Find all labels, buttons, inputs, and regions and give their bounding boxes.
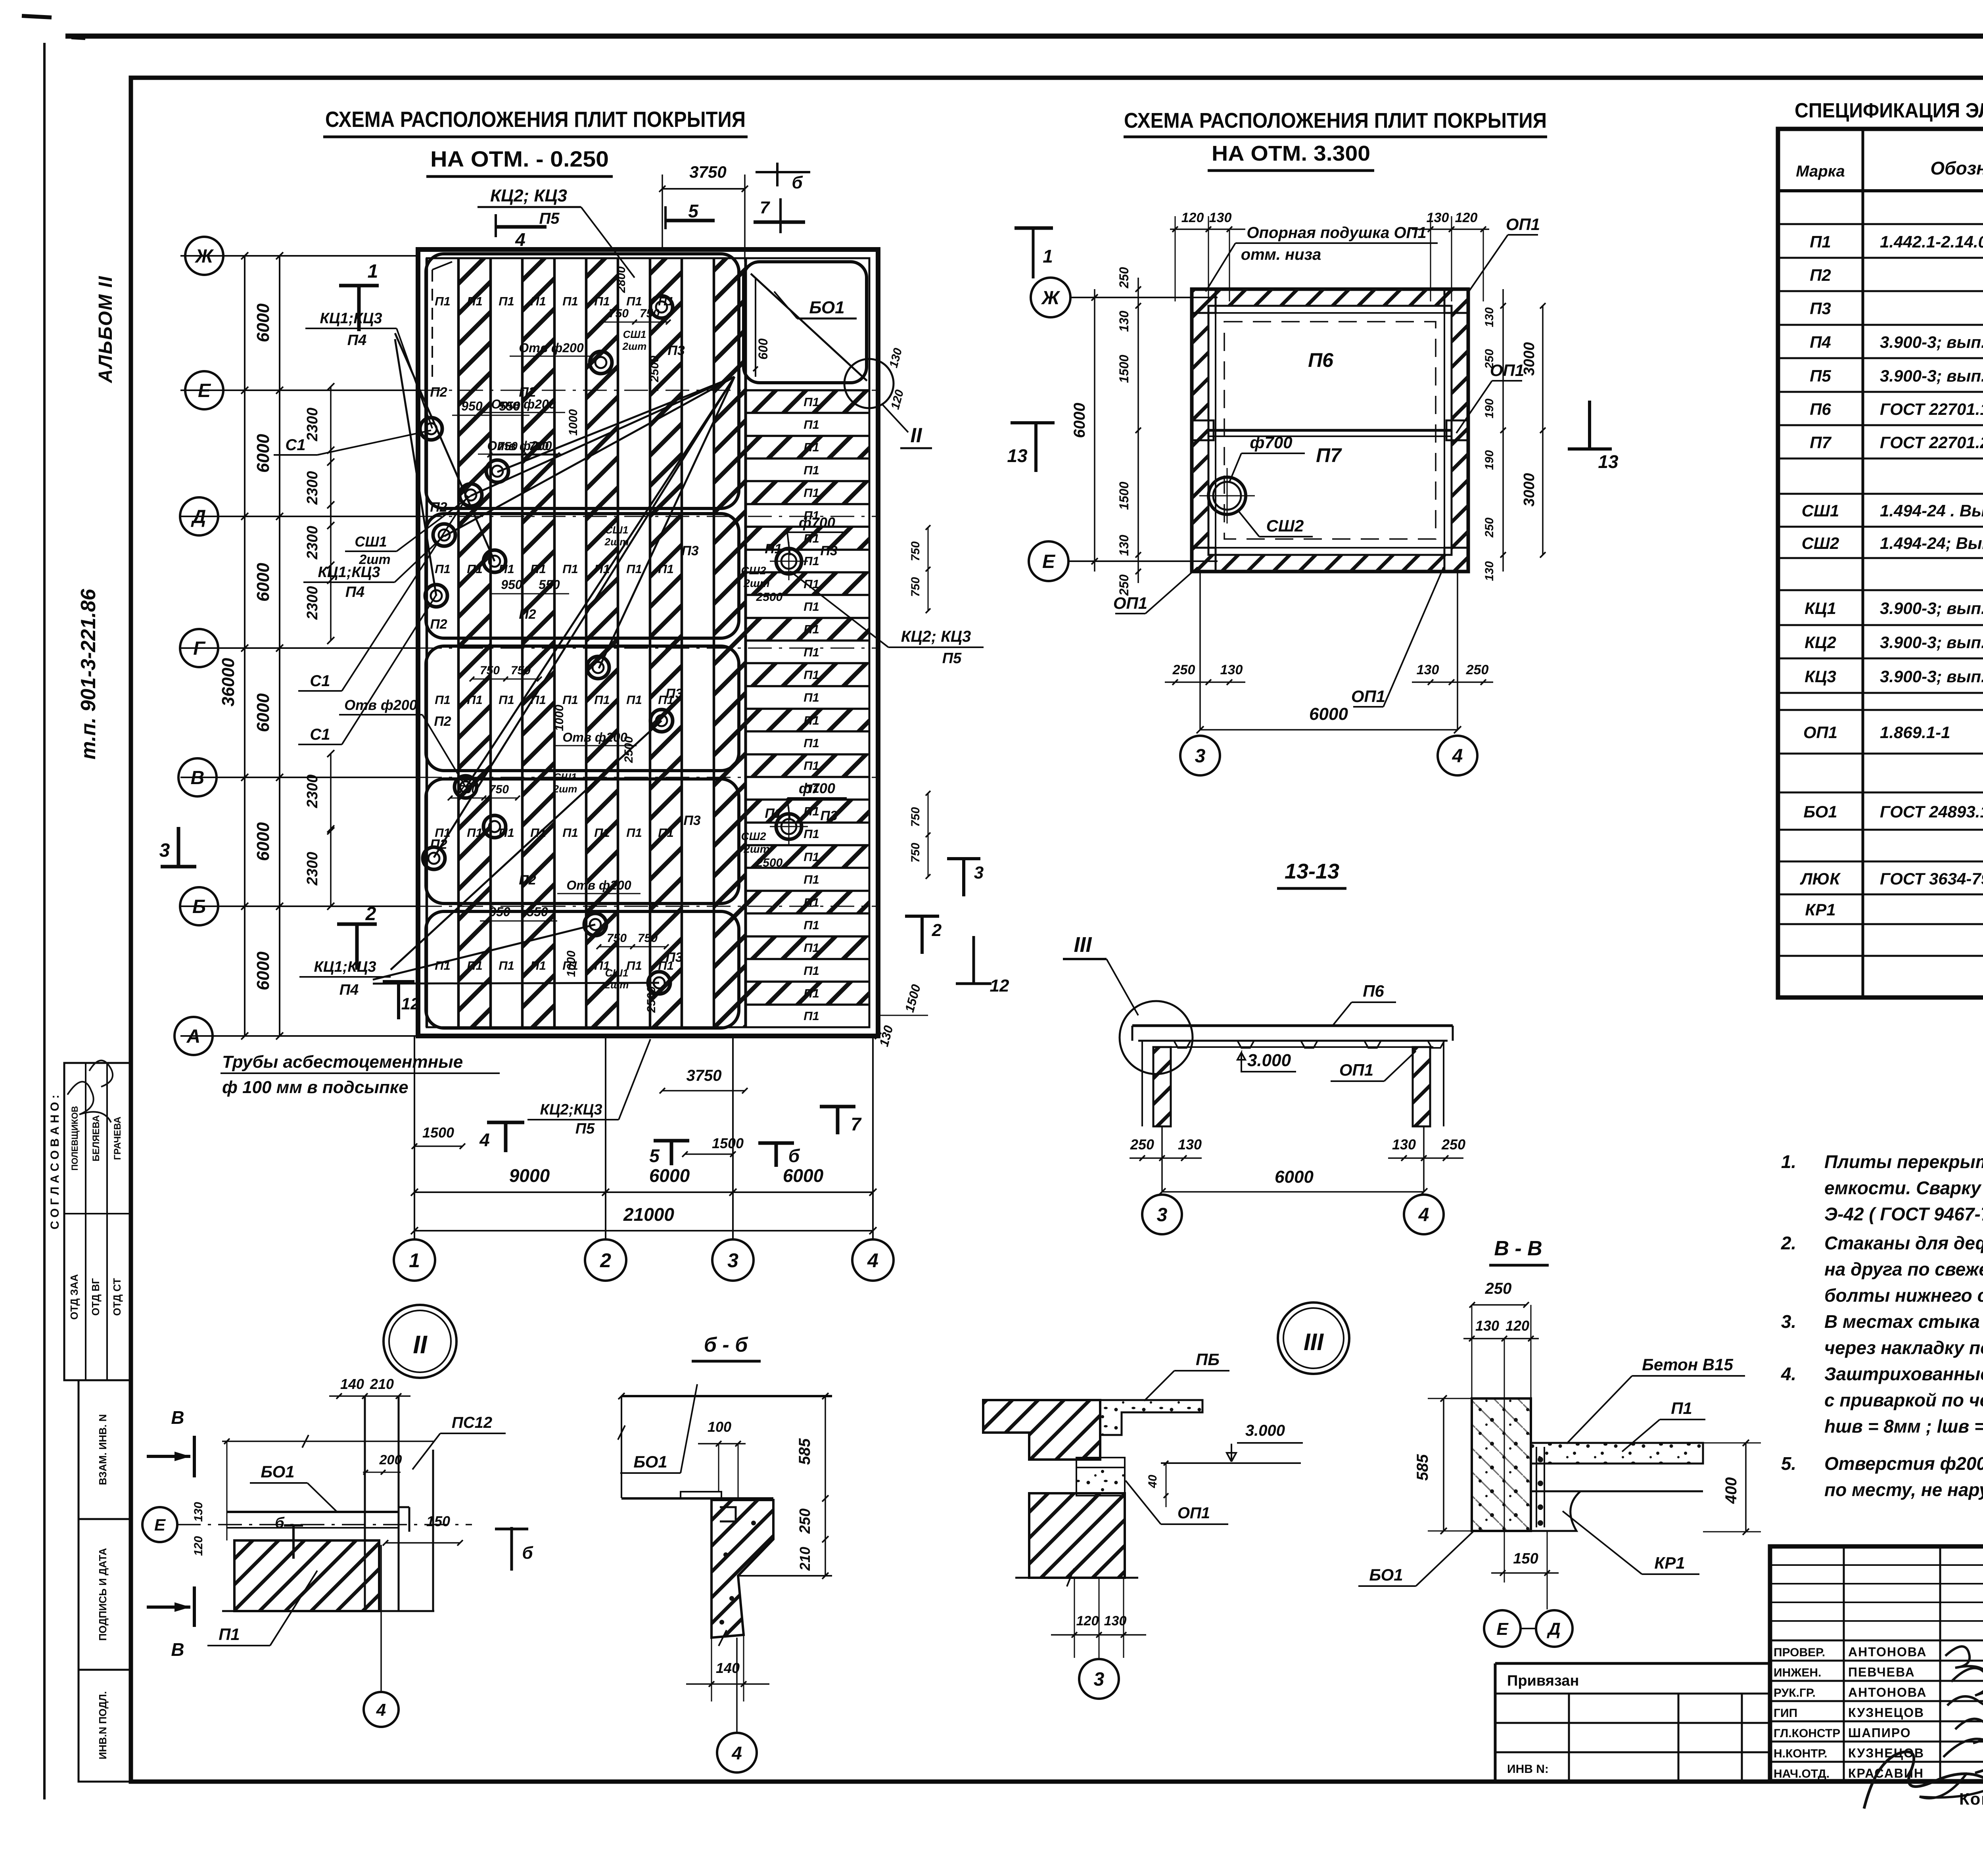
title block: signature grid top xyxy=(1770,1564,1983,1566)
svg-text:130: 130 xyxy=(1475,1318,1499,1334)
svg-text:1: 1 xyxy=(409,1249,420,1272)
svg-text:2500: 2500 xyxy=(756,591,783,604)
svg-text:9000: 9000 xyxy=(509,1165,550,1186)
weld hook at beam top xyxy=(720,1507,736,1521)
svg-text:НА ОТМ. - 0.250: НА ОТМ. - 0.250 xyxy=(430,146,609,171)
svg-text:Отв ф200: Отв ф200 xyxy=(519,341,583,355)
bottom flags xyxy=(487,1121,524,1124)
axis circle А xyxy=(175,1017,213,1055)
svg-text:130: 130 xyxy=(1220,662,1243,677)
svg-text:КЦ2; КЦ3: КЦ2; КЦ3 xyxy=(901,628,971,645)
ledge line xyxy=(738,1575,832,1577)
scheme2 walls xyxy=(1192,289,1468,572)
svg-text:950: 950 xyxy=(501,577,522,592)
svg-text:550: 550 xyxy=(539,577,560,592)
svg-text:П1: П1 xyxy=(626,826,642,840)
title block: signature rows xyxy=(1770,1640,1983,1642)
svg-text:ф700: ф700 xyxy=(799,780,835,796)
svg-text:П4: П4 xyxy=(339,982,359,998)
svg-text:ОП1: ОП1 xyxy=(1113,594,1147,612)
sheet top thick border xyxy=(65,34,1983,39)
svg-text:П1: П1 xyxy=(626,693,642,707)
svg-text:КЦ1;КЦ3: КЦ1;КЦ3 xyxy=(320,310,382,327)
svg-text:СШ2: СШ2 xyxy=(1266,516,1304,535)
svg-text:по месту, не нарушая ребер.: по месту, не нарушая ребер. xyxy=(1824,1479,1983,1500)
svg-text:6000: 6000 xyxy=(253,693,273,732)
stakan ring symbols xyxy=(650,296,673,318)
svg-text:Э-42 ( ГОСТ 9467-75 ).: Э-42 ( ГОСТ 9467-75 ). xyxy=(1824,1204,1983,1224)
svg-text:т.п. 901-3-221.86: т.п. 901-3-221.86 xyxy=(77,589,100,760)
node II leader and label xyxy=(882,405,908,432)
svg-text:Обозначение: Обозначение xyxy=(1930,158,1983,178)
scheme2 section 13 flags xyxy=(1011,421,1055,424)
svg-text:6000: 6000 xyxy=(253,822,273,861)
svg-text:4: 4 xyxy=(479,1130,490,1150)
svg-text:АНТОНОВА: АНТОНОВА xyxy=(1848,1685,1927,1700)
svg-text:КЦ1;КЦ3: КЦ1;КЦ3 xyxy=(314,959,376,975)
svg-text:ГОСТ 3634-79: ГОСТ 3634-79 xyxy=(1880,869,1983,888)
svg-text:ИНВ N:: ИНВ N: xyxy=(1507,1763,1549,1776)
svg-text:П1: П1 xyxy=(804,941,819,955)
svg-text:ОП1: ОП1 xyxy=(1339,1061,1373,1079)
right bay top corner block xyxy=(744,262,867,383)
svg-text:130: 130 xyxy=(1417,662,1439,677)
svg-text:П1: П1 xyxy=(594,294,610,308)
svg-text:КУЗНЕЦОВ: КУЗНЕЦОВ xyxy=(1848,1705,1924,1720)
svg-text:4: 4 xyxy=(376,1700,386,1720)
svg-text:П1: П1 xyxy=(804,986,819,1000)
svg-text:5: 5 xyxy=(688,201,699,221)
б-б wall above: top line xyxy=(621,1395,832,1397)
svg-text:П5: П5 xyxy=(539,210,560,227)
bottom dim line 1 xyxy=(414,1191,873,1193)
svg-text:Марка: Марка xyxy=(1796,163,1845,180)
svg-text:21000: 21000 xyxy=(623,1204,674,1225)
svg-text:СШ1: СШ1 xyxy=(355,533,387,550)
svg-text:III: III xyxy=(1074,933,1092,957)
flag 1 top xyxy=(339,284,379,288)
svg-text:1500: 1500 xyxy=(712,1135,744,1151)
svg-text:Отв ф200: Отв ф200 xyxy=(344,697,417,713)
big signature flourish xyxy=(1864,1752,1983,1809)
svg-text:СШ2: СШ2 xyxy=(1802,534,1839,552)
svg-text:В - В: В - В xyxy=(1494,1237,1542,1260)
svg-text:КЦ1: КЦ1 xyxy=(1805,599,1836,618)
svg-text:б: б xyxy=(792,173,803,192)
svg-text:В местах стыка панелей плиты п: В местах стыка панелей плиты покрытия пр… xyxy=(1824,1311,1983,1332)
б flag right xyxy=(510,1527,513,1571)
svg-text:1: 1 xyxy=(368,261,378,282)
svg-text:Опорная подушка ОП1: Опорная подушка ОП1 xyxy=(1247,224,1426,242)
bottom axis verticals xyxy=(414,1036,415,1239)
svg-text:Б: Б xyxy=(192,896,206,917)
svg-text:3.: 3. xyxy=(1781,1311,1796,1332)
svg-text:П1: П1 xyxy=(804,850,819,864)
svg-text:ЛЮК: ЛЮК xyxy=(1800,869,1841,888)
svg-text:РУК.ГР.: РУК.ГР. xyxy=(1774,1686,1816,1700)
svg-text:П3: П3 xyxy=(683,813,700,828)
right support 13-13 xyxy=(1413,1047,1430,1126)
left margin: inv n podl box xyxy=(79,1670,131,1782)
svg-text:б - б: б - б xyxy=(704,1333,748,1356)
title block signatures squiggles xyxy=(1943,1646,1983,1773)
б-б left dim line with break xyxy=(621,1396,622,1498)
svg-text:2300: 2300 xyxy=(304,526,321,560)
svg-text:П3: П3 xyxy=(820,543,837,558)
svg-text:550: 550 xyxy=(527,905,548,919)
svg-text:585: 585 xyxy=(796,1438,813,1465)
svg-text:1.869.1-1: 1.869.1-1 xyxy=(1880,723,1950,742)
svg-text:П1: П1 xyxy=(467,294,483,308)
svg-text:6000: 6000 xyxy=(649,1165,690,1186)
svg-text:Копировал: Коршунова: Копировал: Коршунова xyxy=(1959,1790,1983,1808)
svg-text:П1: П1 xyxy=(626,959,642,973)
svg-text:ПБ: ПБ xyxy=(1196,1350,1220,1369)
svg-text:2: 2 xyxy=(365,903,376,925)
svg-text:П2: П2 xyxy=(519,607,536,622)
svg-text:120: 120 xyxy=(1455,210,1478,225)
svg-text:ОТД ВГ: ОТД ВГ xyxy=(90,1278,102,1316)
svg-text:130: 130 xyxy=(1483,561,1496,581)
svg-text:750: 750 xyxy=(458,783,478,796)
svg-text:750: 750 xyxy=(909,577,922,597)
svg-text:П1: П1 xyxy=(804,896,819,909)
svg-text:585: 585 xyxy=(1414,1454,1431,1481)
plan axis horizontal lines xyxy=(180,255,418,257)
svg-text:1.442.1-2.14.000-048: 1.442.1-2.14.000-048 xyxy=(1880,232,1983,251)
svg-text:б: б xyxy=(788,1145,800,1166)
svg-text:П1: П1 xyxy=(435,294,451,308)
585 dim б-б xyxy=(825,1396,826,1576)
svg-text:ВЗАМ. ИНВ. N: ВЗАМ. ИНВ. N xyxy=(97,1414,109,1485)
svg-text:СШ1: СШ1 xyxy=(554,771,577,783)
ПС12 vertical element xyxy=(432,1450,434,1611)
svg-text:1500: 1500 xyxy=(422,1124,454,1141)
svg-text:П1: П1 xyxy=(804,964,819,978)
spec table row lines xyxy=(1778,223,1983,225)
svg-text:ИНВ.N ПОДЛ.: ИНВ.N ПОДЛ. xyxy=(97,1691,109,1759)
svg-text:2300: 2300 xyxy=(304,586,321,620)
slab ribs xyxy=(1174,1041,1191,1048)
svg-text:КЦ3: КЦ3 xyxy=(1805,667,1836,686)
svg-text:П1: П1 xyxy=(562,826,578,840)
svg-text:КЦ2;КЦ3: КЦ2;КЦ3 xyxy=(540,1101,602,1118)
scheme2 bottom dims xyxy=(1199,572,1201,730)
svg-text:6000: 6000 xyxy=(1309,704,1348,724)
svg-text:П1: П1 xyxy=(804,668,819,682)
right bay horizontal slab strips xyxy=(746,390,869,413)
svg-text:П1: П1 xyxy=(626,294,642,308)
svg-text:13-13: 13-13 xyxy=(1285,859,1339,883)
svg-text:4: 4 xyxy=(867,1249,878,1272)
svg-text:П1: П1 xyxy=(804,691,819,704)
spec table column lines xyxy=(1862,129,1864,997)
title block outer xyxy=(1770,1546,1983,1781)
13-13 bottom dims xyxy=(1161,1126,1163,1192)
svg-text:Д: Д xyxy=(191,506,206,528)
flag 2 right xyxy=(905,915,939,918)
svg-text:5.: 5. xyxy=(1781,1453,1796,1474)
svg-text:П1: П1 xyxy=(804,714,819,727)
svg-text:36000: 36000 xyxy=(219,658,238,706)
axis circle Д xyxy=(180,497,218,535)
svg-text:П2: П2 xyxy=(430,385,447,400)
svg-text:6000: 6000 xyxy=(253,951,273,990)
slab group rounded blocks xyxy=(426,254,739,508)
node III bottom dims xyxy=(1074,1578,1075,1658)
svg-text:II: II xyxy=(413,1330,428,1359)
В-В slab П1 xyxy=(1531,1443,1703,1464)
svg-text:750: 750 xyxy=(609,307,629,320)
bottom dim line 2 total xyxy=(414,1230,873,1231)
privyazan grid xyxy=(1495,1722,1770,1724)
svg-text:В: В xyxy=(171,1639,184,1660)
left margin: vzam inv box xyxy=(79,1380,131,1519)
svg-text:120: 120 xyxy=(1505,1318,1529,1334)
svg-text:3: 3 xyxy=(1195,746,1206,767)
svg-text:Трубы асбестоцементные: Трубы асбестоцементные xyxy=(222,1052,463,1072)
svg-text:1.494-24 . Вып.1: 1.494-24 . Вып.1 xyxy=(1880,501,1983,520)
vertical slab strips xyxy=(426,258,428,1027)
svg-text:СШ1: СШ1 xyxy=(605,524,629,536)
svg-text:В: В xyxy=(191,767,205,788)
svg-text:П3: П3 xyxy=(665,686,683,701)
svg-text:Бетон В15: Бетон В15 xyxy=(1642,1355,1733,1374)
svg-text:ф 100 мм в подсыпке: ф 100 мм в подсыпке xyxy=(222,1078,408,1097)
svg-text:130: 130 xyxy=(1427,210,1449,225)
130 1500 marks bottom right of plan xyxy=(875,1033,881,1039)
svg-text:СПЕЦИФИКАЦИЯ ЭЛЕМЕНТОВ К СХЕМА: СПЕЦИФИКАЦИЯ ЭЛЕМЕНТОВ К СХЕМАМ РАСПОЛОЖ… xyxy=(1795,99,1983,122)
svg-text:750: 750 xyxy=(511,664,531,677)
svg-text:3.000: 3.000 xyxy=(1245,1422,1285,1439)
svg-text:ПС12: ПС12 xyxy=(452,1414,492,1431)
svg-text:2шт: 2шт xyxy=(604,979,629,991)
circle 4 node II xyxy=(380,1545,382,1692)
spec table header row xyxy=(1778,189,1983,192)
svg-text:130: 130 xyxy=(1178,1136,1202,1153)
svg-text:П3: П3 xyxy=(820,808,837,823)
svg-text:2300: 2300 xyxy=(304,408,321,442)
svg-text:2шт: 2шт xyxy=(743,577,769,589)
svg-text:П1: П1 xyxy=(804,918,819,932)
svg-text:200: 200 xyxy=(379,1452,402,1467)
scheme2 inner dashed slab edge xyxy=(1216,313,1444,548)
svg-text:3.900-3; вып.7: 3.900-3; вып.7 xyxy=(1880,333,1983,351)
svg-text:2шт: 2шт xyxy=(553,783,577,795)
svg-text:П1: П1 xyxy=(804,531,819,545)
svg-text:Отверстия ф200 в плите выполни: Отверстия ф200 в плите выполнить методом… xyxy=(1824,1453,1983,1474)
3750 dim bottom xyxy=(662,1090,745,1091)
vertical dim line 36000 xyxy=(244,256,245,1036)
svg-text:СШ1: СШ1 xyxy=(605,967,629,979)
svg-text:СШ1: СШ1 xyxy=(1802,501,1839,520)
left margin: podpis i data box xyxy=(79,1519,131,1670)
svg-text:130: 130 xyxy=(1117,311,1131,332)
svg-text:П1: П1 xyxy=(530,294,546,308)
svg-text:Отв ф200: Отв ф200 xyxy=(566,878,631,892)
svg-text:отм. низа: отм. низа xyxy=(1241,246,1321,263)
node II marker circle xyxy=(384,1305,456,1378)
svg-text:4.: 4. xyxy=(1781,1364,1796,1384)
svg-text:П6: П6 xyxy=(1308,349,1334,371)
svg-text:4: 4 xyxy=(1418,1205,1429,1226)
svg-text:П1: П1 xyxy=(626,562,642,576)
svg-text:550: 550 xyxy=(499,399,520,413)
svg-text:П1: П1 xyxy=(530,959,546,973)
svg-text:П1: П1 xyxy=(1810,232,1831,251)
node III detail: wall top-left xyxy=(983,1400,1100,1460)
svg-text:А: А xyxy=(186,1026,201,1047)
svg-text:СХЕМА РАСПОЛОЖЕНИЯ ПЛИТ ПОКРЫТ: СХЕМА РАСПОЛОЖЕНИЯ ПЛИТ ПОКРЫТИЯ xyxy=(1124,109,1547,132)
svg-text:АЛЬБОМ II: АЛЬБОМ II xyxy=(95,276,116,384)
svg-text:3: 3 xyxy=(1094,1669,1105,1690)
svg-text:В: В xyxy=(171,1407,184,1428)
svg-text:950: 950 xyxy=(461,399,483,413)
svg-text:3.900-3; вып.7: 3.900-3; вып.7 xyxy=(1880,366,1983,385)
svg-text:13: 13 xyxy=(1007,445,1028,466)
svg-text:750: 750 xyxy=(909,541,922,561)
svg-text:2300: 2300 xyxy=(304,471,321,505)
svg-text:П1: П1 xyxy=(467,693,483,707)
svg-text:СШ1: СШ1 xyxy=(623,328,646,340)
svg-text:ГОСТ 22701.1-77: ГОСТ 22701.1-77 xyxy=(1880,400,1983,418)
svg-text:КЦ1;КЦ3: КЦ1;КЦ3 xyxy=(318,564,380,581)
3.000 mark xyxy=(1237,1053,1245,1071)
svg-text:П1: П1 xyxy=(530,562,546,576)
circles Е Д В-В xyxy=(1484,1610,1521,1647)
svg-text:2: 2 xyxy=(932,921,942,940)
svg-text:6000: 6000 xyxy=(253,563,273,602)
svg-text:130: 130 xyxy=(1104,1613,1127,1629)
svg-text:150: 150 xyxy=(426,1513,450,1529)
1500 dims bottom xyxy=(414,1145,462,1147)
svg-text:Ж: Ж xyxy=(1041,288,1061,309)
svg-text:2шт: 2шт xyxy=(622,340,647,352)
svg-text:ГОСТ 22701.2-77: ГОСТ 22701.2-77 xyxy=(1880,433,1983,452)
svg-text:ГЛ.КОНСТР: ГЛ.КОНСТР xyxy=(1774,1727,1840,1740)
svg-text:130: 130 xyxy=(1483,307,1496,327)
svg-text:П1: П1 xyxy=(499,294,514,308)
svg-text:АНТОНОВА: АНТОНОВА xyxy=(1848,1645,1927,1659)
svg-text:1000: 1000 xyxy=(567,409,580,435)
svg-text:250: 250 xyxy=(1130,1136,1154,1153)
flag 12 right xyxy=(972,936,975,984)
flag 1 right top corner xyxy=(1032,228,1035,278)
svg-text:3.000: 3.000 xyxy=(1247,1051,1291,1070)
left support 13-13 xyxy=(1153,1047,1171,1126)
node II thin circle at plan corner xyxy=(844,359,894,408)
svg-text:П3: П3 xyxy=(667,343,685,358)
svg-text:П2: П2 xyxy=(430,500,447,515)
б-б wall bottom line xyxy=(621,1497,773,1500)
svg-text:П1: П1 xyxy=(467,959,483,973)
svg-text:Е: Е xyxy=(154,1515,166,1534)
svg-text:2: 2 xyxy=(600,1249,611,1272)
svg-text:250: 250 xyxy=(1485,1280,1512,1297)
svg-text:с приваркой по четырем сторона: с приваркой по четырем сторонам б=8мм; xyxy=(1824,1390,1983,1410)
axis circle Ж xyxy=(185,237,223,275)
svg-text:ОП1: ОП1 xyxy=(1803,723,1837,742)
svg-text:ПЕВЧЕВА: ПЕВЧЕВА xyxy=(1848,1665,1915,1679)
svg-text:П4: П4 xyxy=(1810,333,1831,351)
svg-text:П1: П1 xyxy=(594,826,610,840)
svg-text:ИНЖЕН.: ИНЖЕН. xyxy=(1774,1666,1821,1679)
svg-text:БО1: БО1 xyxy=(633,1452,667,1471)
svg-text:КР1: КР1 xyxy=(1805,900,1835,919)
svg-text:40: 40 xyxy=(1146,1475,1159,1489)
svg-text:Н.КОНТР.: Н.КОНТР. xyxy=(1774,1747,1827,1760)
svg-text:4: 4 xyxy=(731,1743,742,1763)
svg-text:600: 600 xyxy=(756,338,770,360)
svg-text:1: 1 xyxy=(1043,246,1053,267)
axis circle 3 xyxy=(712,1239,754,1281)
150 dim В-В xyxy=(1491,1572,1559,1574)
scheme2 right dims xyxy=(1502,289,1504,572)
svg-text:1000: 1000 xyxy=(565,950,578,977)
svg-text:П1: П1 xyxy=(804,440,819,454)
top-left corner dashed opening xyxy=(432,270,433,377)
svg-text:250: 250 xyxy=(1172,662,1195,677)
svg-text:hшв = 8мм ; lшв = 90мм.: hшв = 8мм ; lшв = 90мм. xyxy=(1824,1416,1983,1437)
section slab xyxy=(1132,1024,1453,1027)
svg-text:ГОСТ 24893.1-81: ГОСТ 24893.1-81 xyxy=(1880,802,1983,821)
svg-text:емкости. Сварку производить эл: емкости. Сварку производить электродами xyxy=(1824,1178,1983,1198)
svg-text:ОП1: ОП1 xyxy=(1178,1504,1210,1522)
svg-text:12: 12 xyxy=(401,994,420,1013)
svg-text:П7: П7 xyxy=(1316,444,1342,466)
flag 3 left xyxy=(161,865,196,869)
axis circle Е xyxy=(185,371,223,409)
node III column xyxy=(1029,1493,1125,1578)
svg-text:СХЕМА РАСПОЛОЖЕНИЯ ПЛИТ ПОКРЫТ: СХЕМА РАСПОЛОЖЕНИЯ ПЛИТ ПОКРЫТИЯ xyxy=(325,107,746,132)
node II hatched slab block П1 xyxy=(234,1540,379,1611)
sheet outer paper edge left xyxy=(43,43,46,1799)
left margin signatures xyxy=(67,1082,111,1122)
3750 dim top xyxy=(662,188,745,190)
svg-text:С1: С1 xyxy=(310,726,330,743)
scheme2 middle joint line xyxy=(1208,429,1452,432)
svg-text:3750: 3750 xyxy=(689,163,726,181)
svg-text:ОП1: ОП1 xyxy=(1506,215,1540,234)
svg-text:П1: П1 xyxy=(804,418,819,432)
svg-text:Е: Е xyxy=(1496,1619,1509,1639)
svg-text:П1: П1 xyxy=(765,541,782,556)
svg-text:П1: П1 xyxy=(658,562,674,576)
svg-text:7: 7 xyxy=(851,1114,862,1134)
svg-text:Е: Е xyxy=(198,380,211,401)
bearing plate xyxy=(681,1492,721,1498)
svg-text:П1: П1 xyxy=(804,463,819,477)
svg-text:3000: 3000 xyxy=(1521,473,1538,507)
svg-text:П1: П1 xyxy=(804,395,819,409)
axis dash-dot lines inside plan xyxy=(418,390,878,391)
svg-text:5: 5 xyxy=(649,1145,660,1166)
svg-text:Д: Д xyxy=(1546,1619,1561,1639)
axis circle В xyxy=(178,758,217,796)
svg-text:КР1: КР1 xyxy=(1654,1554,1685,1572)
svg-text:250: 250 xyxy=(797,1508,813,1534)
svg-text:ОТД ЗАА: ОТД ЗАА xyxy=(68,1274,80,1320)
140 dim б-б xyxy=(686,1683,769,1685)
svg-text:6000: 6000 xyxy=(253,303,273,342)
svg-text:1500: 1500 xyxy=(1117,355,1131,383)
vertical dim line 6000 chain xyxy=(279,256,280,1036)
svg-text:С1: С1 xyxy=(310,672,330,690)
svg-text:П2: П2 xyxy=(1810,266,1831,284)
svg-text:П7: П7 xyxy=(1810,433,1831,452)
svg-text:б: б xyxy=(275,1515,285,1531)
В-В wall xyxy=(1472,1398,1531,1531)
